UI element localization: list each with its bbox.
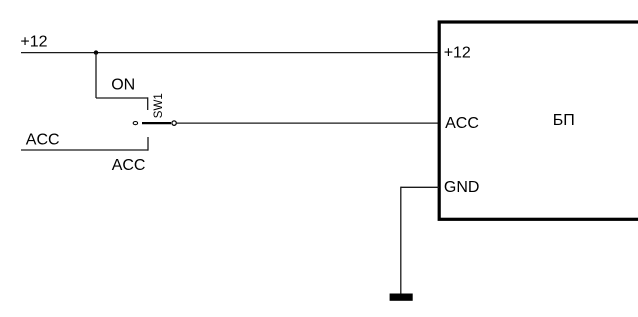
wire +12 top rail [21,52,439,54]
svg-text:ACC: ACC [112,157,146,174]
wire switch to box ACC [177,122,439,124]
wire GND horizontal [401,186,439,188]
svg-text:GND: GND [444,179,480,196]
box U1 power supply [439,22,638,219]
svg-text:+12: +12 [20,34,47,51]
switch SW1 left contact [133,122,137,125]
svg-text:SW1: SW1 [153,93,165,118]
wire from junction down [95,53,97,98]
wire stub from switch bottom [147,137,149,151]
wire stub to switch top [147,97,149,110]
svg-text:ACC: ACC [445,115,479,132]
svg-text:+12: +12 [444,45,471,62]
ground [390,294,413,301]
wire ON horizontal [96,97,148,99]
svg-text:ACC: ACC [26,131,60,148]
switch SW1 right contact [172,121,176,125]
svg-text:БП: БП [553,112,575,129]
node +12 junction [94,50,98,54]
wire ACC bottom [21,149,148,151]
switch SW1 blade [142,122,171,124]
wire GND vertical [400,187,402,294]
svg-text:ON: ON [111,77,135,94]
